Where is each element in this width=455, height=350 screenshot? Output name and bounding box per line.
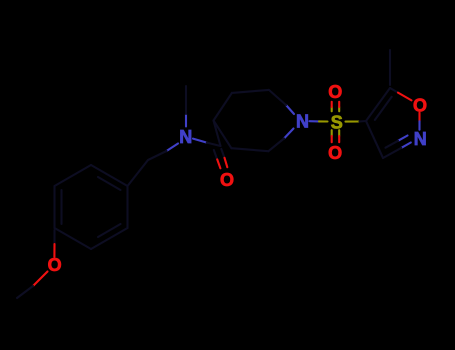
benzene ring xyxy=(55,165,128,249)
svg-text:O: O xyxy=(413,95,427,115)
carbonyl C=O double bond xyxy=(214,149,228,168)
svg-text:O: O xyxy=(220,170,234,190)
wire C5iso-CH3 methyl bond xyxy=(389,50,391,85)
svg-text:S: S xyxy=(331,113,343,133)
wire O-CH3 methoxy methyl bond xyxy=(17,272,48,299)
wire Ca-C1aryl chain bond xyxy=(128,160,149,186)
sulfonyl S=O top double bond xyxy=(332,102,340,112)
wire N1-Ca chain bond xyxy=(148,144,178,161)
svg-text:O: O xyxy=(328,82,342,102)
svg-text:O: O xyxy=(328,143,342,163)
wire N1-Cco amide bond xyxy=(193,139,221,146)
wire Npip-S bond xyxy=(310,120,328,122)
wire N1-CH3 methyl bond xyxy=(185,86,187,127)
wire S-C4iso bond xyxy=(346,120,367,123)
sulfonyl S=O bottom double bond xyxy=(332,130,340,142)
svg-text:N: N xyxy=(296,112,309,132)
svg-text:N: N xyxy=(179,127,192,147)
svg-text:O: O xyxy=(48,255,62,275)
isoxazole ring xyxy=(366,88,420,158)
svg-text:N: N xyxy=(414,129,427,149)
wire Cco-C4pip bond xyxy=(214,121,221,147)
piperidine ring xyxy=(214,90,295,151)
wire C4aryl-O methoxy bond xyxy=(53,230,55,257)
